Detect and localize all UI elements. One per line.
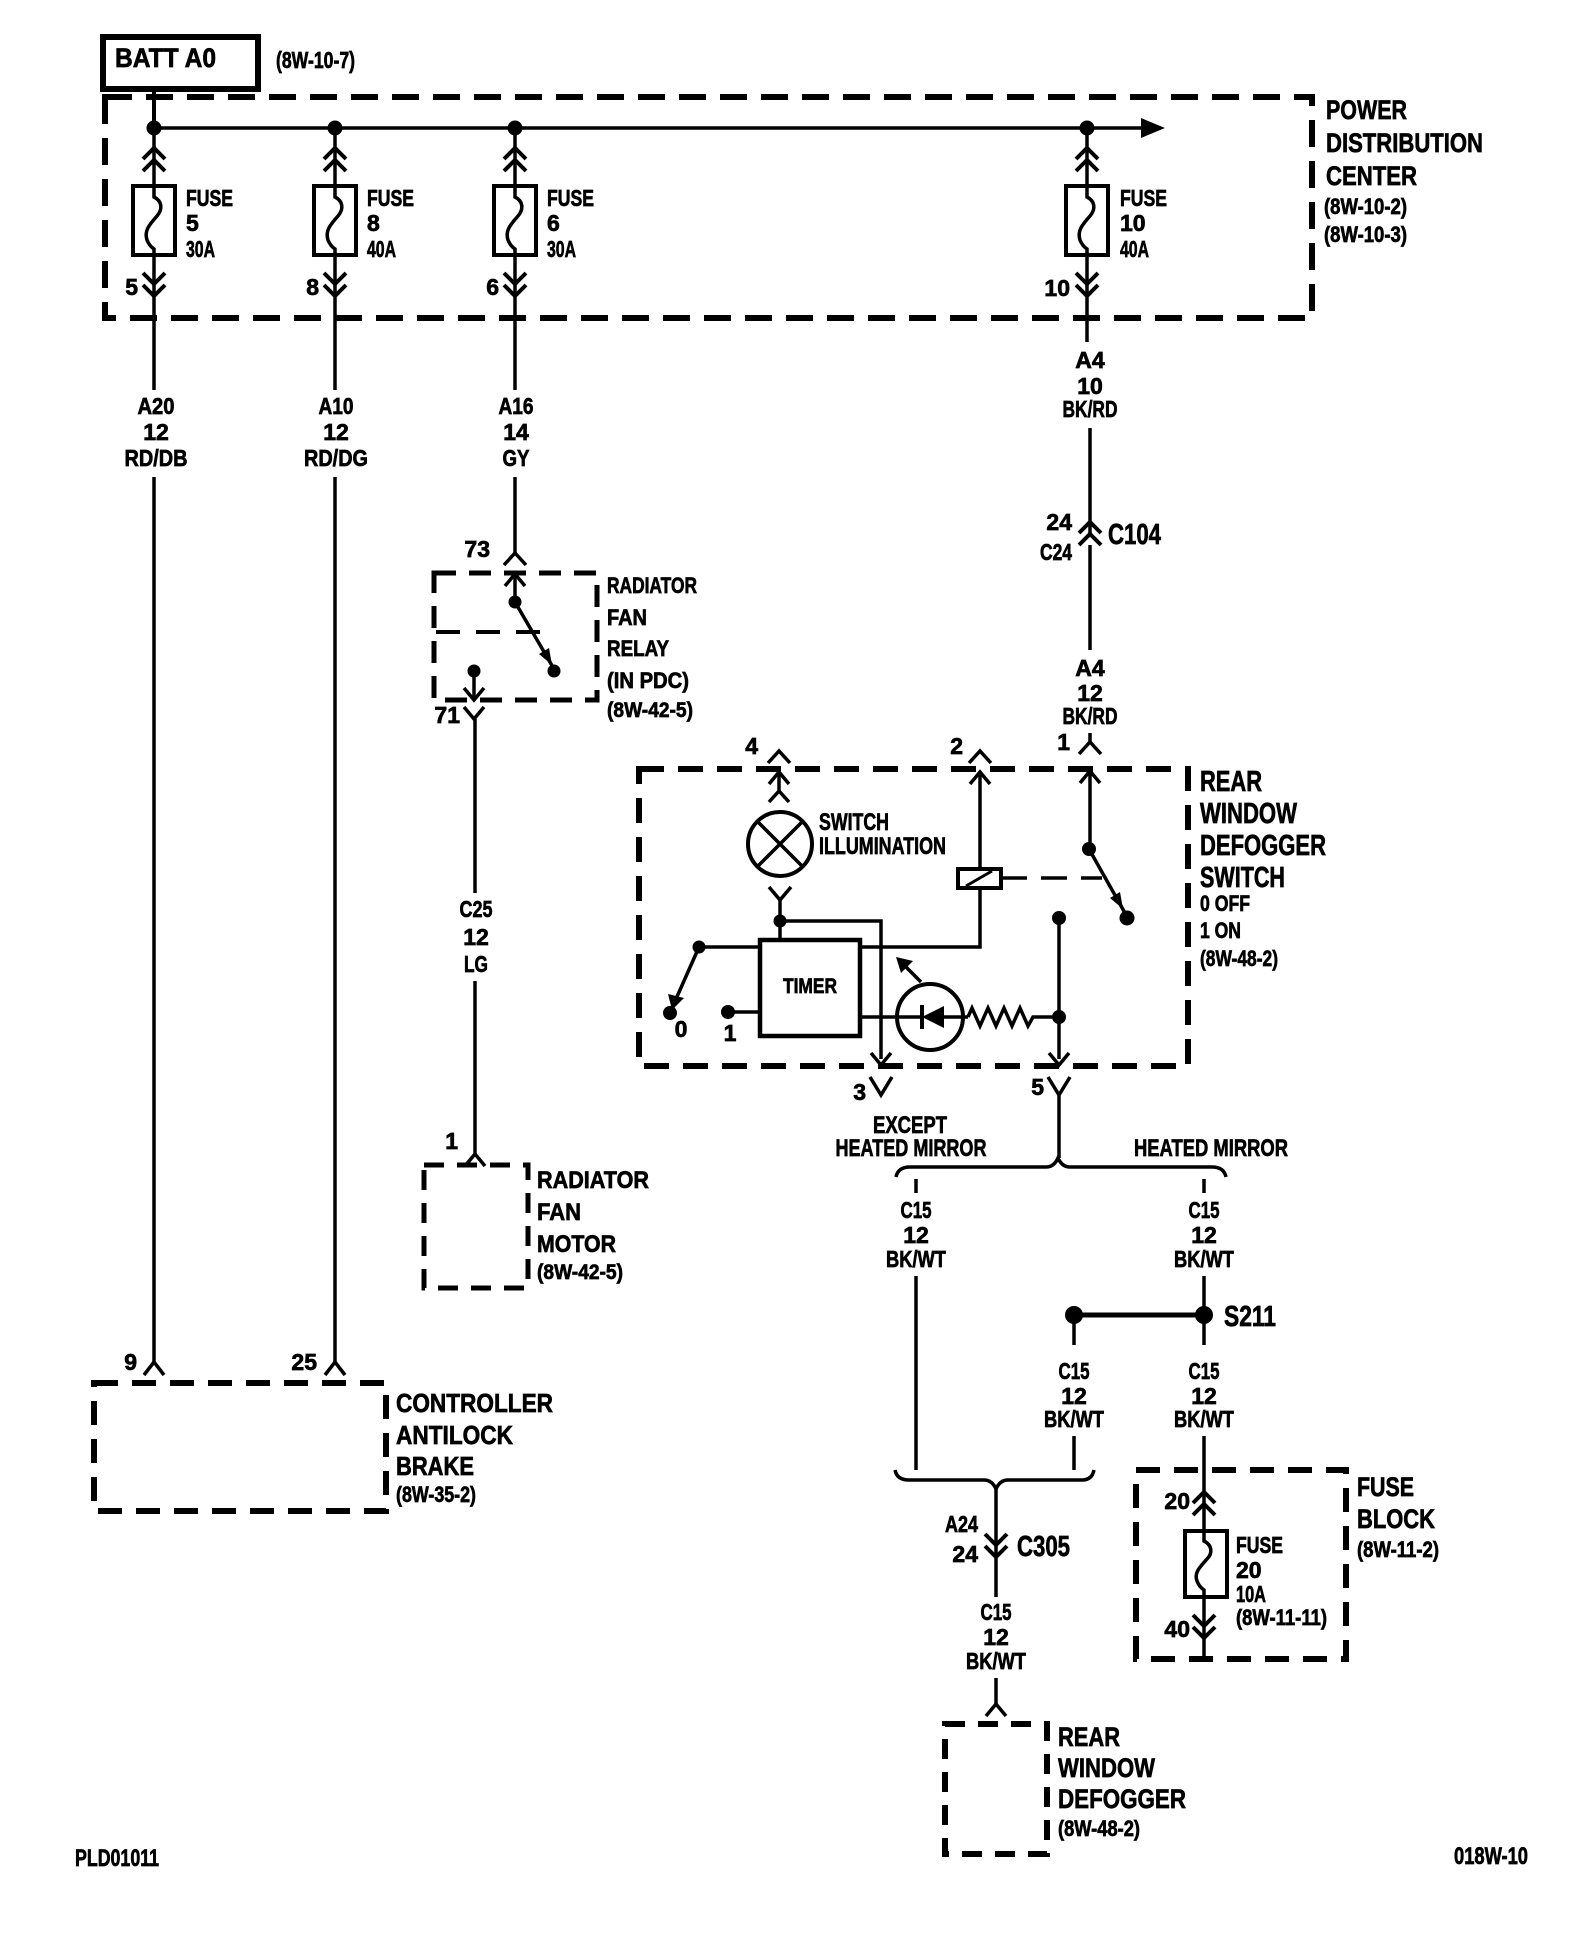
svg-text:BK/WT: BK/WT [886,1246,946,1272]
svg-text:C24: C24 [1040,539,1072,565]
fuse F10 lower connector chevrons [1076,273,1098,296]
wire lamp node to pin 3 drop [780,921,881,1059]
svg-text:9: 9 [124,1349,137,1375]
svg-text:71: 71 [434,702,460,728]
wire merge to C305 [994,1489,998,1556]
svg-text:0 OFF: 0 OFF [1200,891,1250,916]
connector C104 pin labels 24 C24 [1040,509,1072,565]
svg-text:FAN: FAN [607,605,647,630]
connector C305 chevrons [985,1534,1007,1557]
wire from BATT A0 to bus [152,90,156,128]
wire node to pin 5 [1057,918,1061,1059]
pin 5 external chevron with stem [1048,1077,1070,1158]
svg-text:(8W-11-2): (8W-11-2) [1357,1537,1439,1562]
svg-text:FUSE: FUSE [1357,1472,1414,1502]
svg-text:POWER: POWER [1326,95,1407,125]
svg-text:12: 12 [903,1222,929,1248]
svg-text:(8W-10-7): (8W-10-7) [276,47,355,73]
svg-text:A16: A16 [499,393,534,419]
relay common pivot node [509,596,522,609]
svg-text:20: 20 [1236,1557,1262,1583]
relay contact node [548,665,561,678]
radiator fan motor name label [537,1167,649,1284]
timer box [760,940,860,1036]
svg-text:(8W-48-2): (8W-48-2) [1058,1816,1140,1841]
svg-text:12: 12 [323,419,349,445]
junction node at fuse 8 [328,121,343,136]
svg-text:FUSE: FUSE [367,185,414,211]
svg-text:14: 14 [503,419,529,445]
radiator fan relay dashed box [434,573,597,700]
splice left wire label C15 [1044,1358,1104,1432]
fuse block pin 20 chevrons [1193,1492,1215,1515]
wire timer to coil [860,888,980,947]
svg-text:10: 10 [1044,275,1070,301]
svg-text:40: 40 [1164,1616,1190,1642]
controller antilock brake pin 9 chevron [144,1362,164,1375]
fuse F8 [314,186,356,255]
svg-text:WINDOW: WINDOW [1058,1753,1155,1783]
svg-text:REAR: REAR [1200,766,1262,798]
fuse F5 [133,186,175,255]
svg-text:BK/WT: BK/WT [966,1648,1026,1674]
svg-text:40A: 40A [367,236,396,262]
pin 3 internal arrow [871,1053,891,1065]
wire C25 label [460,896,493,977]
connector C305 labels A24 24 [945,1511,978,1567]
fuse F8 value label [367,185,414,262]
svg-text:(8W-10-2): (8W-10-2) [1324,194,1407,219]
svg-text:FUSE: FUSE [1236,1532,1283,1558]
svg-text:1 ON: 1 ON [1200,918,1241,943]
svg-text:40A: 40A [1120,236,1149,262]
wire C15 label bottom [966,1599,1026,1674]
terminal 0 node [663,1006,677,1020]
fuse F20 [1185,1531,1227,1597]
svg-text:(8W-48-2): (8W-48-2) [1200,946,1278,971]
svg-text:20: 20 [1164,1488,1190,1514]
right branch wire label C15 [1174,1197,1234,1272]
radiator fan motor dashed box [424,1165,528,1288]
svg-text:BK/RD: BK/RD [1063,703,1118,729]
svg-text:(8W-42-5): (8W-42-5) [537,1261,623,1284]
contact switch pivot node pin1 [1082,842,1096,856]
svg-text:S211: S211 [1224,1301,1276,1333]
svg-text:5: 5 [1031,1074,1044,1100]
svg-text:10: 10 [1120,210,1146,236]
relay pin 71 node [468,665,481,678]
relay pin 71 external chevron [464,707,484,719]
wire lamp node to timer top [778,921,782,940]
mode switch pivot node [693,941,706,954]
rear window defogger dashed box [945,1724,1047,1854]
wire pivot to timer [699,945,760,949]
fuse F6 branch wire [513,128,517,186]
svg-text:BRAKE: BRAKE [396,1451,474,1481]
svg-text:FAN: FAN [537,1199,581,1226]
pin 5 top node [1052,911,1066,925]
svg-text:0: 0 [675,1016,688,1042]
power distribution center dashed box [105,97,1312,318]
svg-text:6: 6 [486,274,499,300]
svg-text:A20: A20 [138,393,175,419]
pin 5 internal arrow [1049,1053,1069,1065]
fuse F5 upper connector chevrons [143,148,165,171]
svg-text:25: 25 [291,1349,317,1375]
fuse F10 upper connector chevrons [1076,148,1098,171]
resistor [968,1008,1052,1026]
relay coil in switch [958,869,1001,888]
radiator fan motor pin 1 chevron [465,1154,485,1166]
svg-text:5: 5 [125,274,138,300]
fuse F6 [494,186,536,255]
controller antilock brake pin 25 chevron [325,1362,345,1375]
relay pin 73 internal arrow [505,574,525,602]
mechanical link dashed [1001,876,1102,880]
svg-text:A4: A4 [1075,347,1105,373]
svg-text:SWITCH: SWITCH [1200,862,1285,894]
fuse block name label [1357,1472,1439,1562]
fuse F6 value label [547,185,594,262]
svg-text:(8W-11-11): (8W-11-11) [1236,1605,1327,1630]
relay internal dashed divider [436,630,540,634]
svg-text:018W-10: 018W-10 [1454,1843,1528,1870]
svg-text:1: 1 [724,1020,737,1046]
wire A4 upper segment [1085,318,1089,342]
svg-text:BLOCK: BLOCK [1357,1504,1435,1534]
fuse F6 lower connector chevrons [504,273,526,296]
fuse F10 branch wire [1085,128,1089,186]
wire C25 upper segment [473,719,477,893]
fuse F8 lower connector chevrons [324,273,346,296]
svg-text:8: 8 [306,274,319,300]
rear window defogger switch dashed box [639,769,1188,1066]
mode switch arm to 0 [668,947,699,1010]
wire A20 upper segment [152,318,156,390]
svg-text:(IN PDC): (IN PDC) [607,668,689,693]
svg-text:30A: 30A [547,236,576,262]
svg-text:6: 6 [547,210,560,236]
controller antilock brake name label [396,1388,553,1507]
wire timer to diode [860,1015,897,1019]
svg-text:WINDOW: WINDOW [1200,798,1297,830]
relay pin 73 terminal chevron [504,553,526,565]
svg-text:A24: A24 [945,1511,978,1537]
svg-text:HEATED MIRROR: HEATED MIRROR [1134,1135,1288,1162]
split brace [896,1158,1226,1177]
svg-text:12: 12 [143,419,169,445]
diode arrow annotation [896,957,921,982]
svg-text:CONTROLLER: CONTROLLER [396,1388,553,1418]
svg-text:2: 2 [950,733,963,759]
switch pin 1 internal arrow and wire to pivot [1080,771,1100,849]
fuse block lower stub wire [1202,1597,1206,1659]
svg-text:24: 24 [952,1541,978,1567]
wire A16 upper segment [513,318,517,390]
svg-text:C15: C15 [1059,1358,1090,1384]
left branch tick [914,1179,918,1193]
svg-text:BK/WT: BK/WT [1174,1246,1234,1272]
wire C305 to label [994,1557,998,1597]
wire A4 segment to C104 [1088,428,1092,534]
wire C25 lower segment [473,981,477,1154]
wire A20 label [125,393,188,471]
svg-text:C15: C15 [1189,1358,1220,1384]
fuse block dashed box [1136,1470,1346,1659]
svg-text:(8W-10-3): (8W-10-3) [1324,222,1407,247]
svg-text:LG: LG [464,951,488,977]
splice right wire label C15 [1174,1358,1234,1432]
svg-text:BK/WT: BK/WT [1044,1406,1104,1432]
bus wire with arrow [154,118,1165,138]
svg-text:A4: A4 [1075,655,1105,681]
lamp lower chevron [769,887,791,921]
svg-text:1: 1 [445,1128,458,1154]
svg-text:3: 3 [853,1079,866,1105]
fuse block pin 40 chevrons [1193,1615,1215,1638]
defogger switch name label [1200,766,1326,971]
svg-text:C305: C305 [1017,1531,1070,1563]
junction node at fuse 10 [1080,121,1095,136]
svg-text:BK/WT: BK/WT [1174,1406,1234,1432]
fuse F10 value label [1120,185,1167,262]
fuse F8 upper connector chevrons [324,148,346,171]
right branch tick [1202,1179,1206,1193]
wire terminal 1 to timer [728,1010,760,1014]
splice S211 [1065,1306,1213,1324]
junction node at fuse 6 [508,121,523,136]
splice right wire into fuse block [1202,1436,1206,1531]
svg-text:30A: 30A [186,236,215,262]
wire A4 segment to defogger switch pin 1 [1088,733,1092,742]
svg-text:BATT A0: BATT A0 [115,43,216,73]
svg-text:DEFOGGER: DEFOGGER [1058,1784,1186,1814]
relay name label [607,573,697,722]
diode indicator circle [897,984,968,1050]
branch label EXCEPT HEATED MIRROR [836,1112,987,1162]
left branch wire label C15 [886,1197,946,1272]
switch pin 2 internal arrow [970,772,990,869]
svg-text:C15: C15 [1189,1197,1220,1223]
svg-text:DEFOGGER: DEFOGGER [1200,830,1326,862]
connector C104 chevrons [1079,522,1101,545]
svg-text:FUSE: FUSE [1120,185,1167,211]
svg-text:REAR: REAR [1058,1722,1120,1752]
fuse F20 value label [1236,1532,1327,1630]
wire A10 long segment to CAB [333,477,337,1362]
fuse F5 lower connector chevrons [143,273,165,296]
splice left wire lower [1072,1436,1076,1470]
wire A10 upper segment [333,318,337,390]
splice right drop tick [1202,1315,1206,1345]
defogger switch arm [1089,849,1125,913]
switch pin 4 external chevron [768,751,790,763]
svg-text:HEATED MIRROR: HEATED MIRROR [836,1135,987,1162]
svg-text:C15: C15 [981,1599,1012,1625]
pin 3 external chevron [870,1077,892,1095]
right branch wire to splice [1202,1276,1206,1315]
svg-text:MOTOR: MOTOR [537,1231,616,1258]
fuse F5 value label [186,185,233,262]
fuse F8 branch wire [333,128,337,186]
wire A10 label [304,393,368,471]
junction node at fuse 5 [147,121,162,136]
switch pin 4 internal arrow [769,772,789,802]
svg-text:24: 24 [1046,509,1072,535]
svg-text:12: 12 [983,1624,1009,1650]
fuse F10 [1066,186,1108,255]
switch illumination label [819,809,946,860]
svg-text:4: 4 [745,733,758,759]
svg-text:8: 8 [367,210,380,236]
svg-text:DISTRIBUTION: DISTRIBUTION [1326,128,1483,158]
svg-text:SWITCH: SWITCH [819,809,889,836]
svg-text:A10: A10 [319,393,354,419]
resistor output node [1052,1010,1066,1024]
controller antilock brake dashed box [94,1383,386,1511]
svg-text:C25: C25 [460,896,493,922]
wire to rear window defogger [994,1678,998,1704]
svg-text:RD/DG: RD/DG [304,445,368,471]
wire A16 label [499,393,534,471]
wire A4 lower segment [1088,545,1092,650]
svg-text:RADIATOR: RADIATOR [537,1167,649,1194]
svg-text:1: 1 [1057,729,1070,755]
terminal 1 node [721,1005,735,1019]
left branch long wire [914,1276,918,1470]
svg-text:ILLUMINATION: ILLUMINATION [819,833,946,860]
wire A20 long segment to CAB [152,477,156,1362]
svg-text:12: 12 [1191,1222,1217,1248]
svg-text:BK/RD: BK/RD [1063,396,1118,422]
svg-text:73: 73 [464,536,490,562]
svg-text:CENTER: CENTER [1326,161,1417,191]
wire A4 label lower [1063,655,1118,729]
svg-text:FUSE: FUSE [547,185,594,211]
relay pin 71 internal arrow [464,671,484,700]
svg-text:TIMER: TIMER [783,975,837,998]
svg-text:RADIATOR: RADIATOR [607,573,697,598]
svg-text:C104: C104 [1108,519,1161,551]
switch pin 1 external chevron [1079,742,1101,754]
merge brace [895,1470,1094,1489]
svg-text:C15: C15 [901,1197,932,1223]
wire A16 segment to relay [513,477,517,553]
svg-text:PLD01011: PLD01011 [75,1845,159,1872]
defogger switch arm end node [1120,911,1135,926]
svg-text:10A: 10A [1236,1581,1266,1607]
svg-text:GY: GY [503,445,530,471]
svg-text:5: 5 [186,210,199,236]
svg-text:FUSE: FUSE [186,185,233,211]
splice left drop tick [1072,1315,1076,1345]
PDC name label [1324,95,1483,247]
svg-text:RELAY: RELAY [607,636,669,661]
svg-text:RD/DB: RD/DB [125,445,188,471]
lamp junction node [774,915,787,928]
rear window defogger name label [1058,1722,1186,1841]
svg-text:ANTILOCK: ANTILOCK [396,1420,513,1450]
wire A4 label upper [1063,347,1118,422]
fuse F6 upper connector chevrons [504,148,526,171]
fuse F5 branch wire [152,128,156,186]
svg-text:(8W-42-5): (8W-42-5) [607,699,693,722]
rear window defogger pin chevron [986,1704,1006,1716]
relay switch arm [515,602,554,669]
svg-text:(8W-35-2): (8W-35-2) [396,1482,476,1507]
switch illumination lamp [748,812,812,876]
switch pin 2 external chevron [969,751,991,763]
svg-text:12: 12 [463,924,489,950]
battery feed box BATT A0 [103,37,258,89]
